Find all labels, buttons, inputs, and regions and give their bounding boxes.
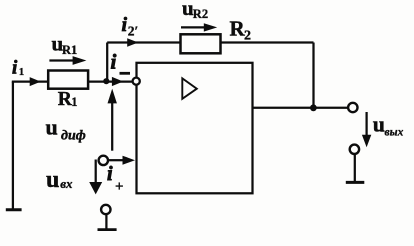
ground: output side	[346, 181, 365, 184]
wire: left vertical down to ground	[12, 82, 14, 209]
arrow: u_out voltage direction	[365, 112, 367, 136]
svg-text:R2: R2	[193, 7, 208, 21]
svg-text:1: 1	[71, 95, 77, 109]
svg-text:2′: 2′	[128, 23, 139, 38]
arrow: uR2 voltage direction	[181, 26, 205, 28]
svg-text:i: i	[111, 50, 117, 74]
svg-text:R1: R1	[62, 43, 77, 57]
svg-text:вых: вых	[385, 127, 404, 139]
svg-text:i: i	[122, 14, 128, 36]
wire: lower output terminal to ground	[354, 154, 356, 181]
arrowhead: input current i1	[30, 77, 41, 86]
svg-text:диф: диф	[61, 129, 86, 144]
terminal: output circle	[348, 103, 357, 112]
terminal: lower output circle	[350, 145, 359, 154]
ground: input side	[6, 208, 22, 211]
svg-text:1: 1	[19, 66, 25, 78]
terminal: inverting input circle	[133, 78, 140, 85]
arrow: u_in voltage direction (down)	[95, 160, 97, 184]
node: output junction dot	[310, 104, 317, 111]
op-amp triangle symbol	[182, 78, 197, 98]
wire: riser from node up to feedback line	[106, 43, 108, 82]
wire: feedback vertical down to output node	[312, 43, 314, 108]
svg-text:вх: вх	[60, 176, 73, 191]
arrowhead: current i+ into op-amp	[123, 156, 136, 165]
svg-text:i: i	[12, 58, 18, 79]
wire: feedback horizontal to R2 and right corner	[107, 41, 313, 43]
node: inverting junction dot	[103, 78, 109, 84]
svg-text:+: +	[115, 179, 124, 195]
arrowhead: feedback current i2'	[127, 38, 138, 47]
terminal: bottom input circle	[101, 205, 110, 214]
arrow: u_dif differential voltage (up)	[111, 101, 113, 151]
wire: input horizontal from i1 to inverting input	[12, 80, 133, 82]
resistor R1	[48, 71, 88, 89]
svg-text:u: u	[373, 112, 385, 137]
svg-text:u: u	[46, 115, 58, 140]
wire: output from op-amp	[253, 107, 349, 109]
ground: bottom input side	[98, 228, 117, 231]
arrow: uR1 voltage direction	[49, 59, 74, 61]
resistor R2	[181, 34, 221, 53]
terminal: non-inverting input circle	[99, 156, 108, 165]
svg-text:2: 2	[244, 29, 251, 44]
svg-text:i: i	[107, 163, 113, 185]
arrowhead: current i- toward op-amp	[112, 77, 123, 86]
wire: non-inverting input into op-amp	[109, 159, 125, 161]
op-amp U1 body	[137, 63, 253, 194]
wire: bottom terminal to ground	[105, 214, 107, 229]
svg-text:u: u	[46, 167, 59, 193]
